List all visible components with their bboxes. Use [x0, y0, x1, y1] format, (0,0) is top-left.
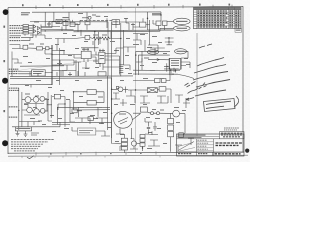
wire cluster to bus: [41, 26, 74, 30]
handwritten arrow into drawing: [186, 98, 194, 101]
revision table row lines: [194, 10, 242, 26]
handwritten word small upper: [199, 44, 212, 48]
signal arrow left-pointing: [154, 58, 160, 60]
pin stubs U3 U4: [52, 48, 120, 77]
wire chain right: [180, 114, 186, 120]
note text top-left: [21, 12, 30, 15]
revision table outline: [194, 7, 242, 28]
wire arc right: [178, 75, 194, 79]
notes line 6: [14, 150, 35, 152]
vertical wire x149.6: [149, 20, 151, 45]
handwritten checkmark bottom-left: [27, 156, 34, 159]
wire drop x161: [160, 12, 162, 21]
wire right bottom region: [171, 120, 185, 152]
wire drop from top bus at x147: [147, 12, 149, 30]
resistor R1: [23, 25, 29, 27]
wire input rows: [21, 26, 33, 33]
handwritten S-curve: [188, 88, 199, 94]
wire to oval E1: [167, 21, 174, 23]
note box P/O: [77, 128, 95, 135]
punch hole top-left: [3, 9, 9, 15]
tiny text bottom-left cluster: [31, 133, 39, 136]
notes line 4: [11, 145, 41, 147]
node labels row y37: [10, 38, 21, 41]
vertical wire x18.8: [18, 88, 20, 130]
long vertical bus x111.6 upper: [111, 22, 113, 78]
fold crease vertical mid: [134, 8, 136, 152]
vertical wire x123.3: [122, 31, 124, 66]
wire R5 to right: [120, 21, 140, 23]
handwritten scrawl line 2: [194, 65, 226, 74]
transistor Q5: [34, 109, 40, 115]
resistor R8 zigzag: [102, 37, 110, 40]
box on bus: [98, 72, 106, 76]
approvals cell rows: [213, 139, 215, 156]
bottom zone ticks: [36, 151, 156, 155]
extra wiring bottom mesh: [19, 89, 194, 151]
vertical wire x120.8: [120, 23, 122, 76]
wire U3 left: [52, 55, 81, 59]
power bus vertical x52: [51, 45, 53, 85]
IC U1: [56, 19, 62, 23]
feedback wires: [74, 92, 111, 110]
series chain y113: [132, 113, 140, 120]
sheet top border: [8, 6, 243, 7]
SECTION:FRAME: [2, 4, 249, 159]
wire U3 to U4: [91, 52, 99, 56]
thermistor ladder RT2: [121, 138, 127, 141]
wire chain: [147, 112, 172, 113]
transistor Q4: [27, 107, 33, 113]
capacitor C5 box: [85, 22, 90, 25]
wires lower middle mesh: [52, 107, 112, 124]
small boxes below routing: [155, 79, 161, 83]
capacitor C1 box: [156, 21, 161, 26]
title block bottom row: [177, 151, 245, 153]
wire bus y30: [41, 29, 174, 32]
routing loop verticals: [136, 51, 142, 75]
long bus y78.2: [10, 77, 112, 80]
resistor R7 zigzag: [93, 37, 101, 40]
revision table text smears: [197, 11, 240, 27]
ref designator smears scattered: [23, 13, 190, 149]
signature cell with diagonal strokes: [177, 151, 197, 153]
connector label block left mid: [9, 69, 18, 73]
label box bottom-left: [15, 127, 31, 131]
title block tolerance strip: [177, 138, 220, 140]
node J1 input labels: [10, 26, 22, 33]
wire x197 vertical: [196, 33, 198, 136]
IC U5: [169, 58, 181, 69]
component cluster with circle x120: [112, 87, 128, 93]
wire y126.8: [12, 122, 60, 127]
handwritten scrawl line 3: [193, 72, 228, 81]
wire top rectangle run: [49, 22, 108, 27]
wire crystal row: [136, 89, 172, 90]
wire bottom connects: [112, 138, 140, 144]
resistor R5: [112, 20, 120, 25]
revision table header band: [194, 7, 242, 9]
extra wiring centre mesh: [30, 34, 190, 77]
SECTION:NOTES: [11, 140, 54, 151]
fold crease diagonal left: [10, 58, 112, 72]
wire y84.5: [10, 84, 52, 87]
off-page oval E4: [147, 50, 158, 54]
handwritten note box text line 1: [206, 101, 231, 104]
capacitor C4: [153, 123, 156, 131]
extra left area wires: [10, 34, 65, 85]
pot circle chain: [173, 110, 180, 117]
revision table tail cell: [235, 29, 242, 33]
wire box x54: [52, 96, 65, 98]
transistor Q2: [33, 97, 39, 103]
handwritten scrawl line 4: [196, 80, 230, 88]
wire U4 right: [105, 56, 120, 60]
title block outline: [177, 134, 245, 156]
wire row y48: [12, 47, 52, 50]
handwritten note box text line 2: [206, 106, 224, 108]
wire rows y37: [21, 35, 33, 41]
transistor Q3: [40, 96, 45, 101]
reference note tiny text above title block: [224, 128, 239, 130]
notes line 3: [11, 143, 43, 145]
thermistor ladder RT1: [168, 113, 174, 140]
resistor R11: [72, 109, 77, 113]
box chain left: [141, 107, 148, 112]
extra wiring top-left mesh: [30, 12, 174, 45]
ground symbol G1: [16, 131, 20, 136]
zone letters left margin: [3, 26, 5, 113]
junction cluster right mid: [164, 63, 179, 75]
resistor R9: [87, 90, 96, 95]
wire U1 to Q6: [75, 18, 88, 25]
notes line 5: [11, 148, 38, 150]
resistor R4: [23, 32, 29, 34]
capacitor C2 box: [163, 21, 168, 26]
zone numbers top: [22, 4, 230, 7]
punch hole mid-left: [2, 78, 8, 84]
label smear x96: [96, 15, 101, 18]
transistor Q6 circle: [88, 16, 91, 19]
handwritten flourish curve: [234, 96, 239, 107]
wire dashed y20.3: [80, 19, 112, 21]
wire U1 left: [52, 12, 73, 22]
SECTION:TABLE: [194, 7, 242, 32]
handwritten ticks upper-left of note: [185, 82, 196, 88]
SECTION:TITLEBLOCK: [177, 128, 245, 156]
sheet bottom inner border: [8, 152, 244, 153]
connector labels lower-left: [9, 88, 19, 117]
meter M1 big ellipse: [114, 111, 133, 128]
ladder2 small rects: [140, 135, 145, 152]
box x54: [54, 94, 60, 99]
resistor R2: [23, 27, 29, 29]
pot circle P1: [131, 141, 136, 146]
junction circle chain 1: [151, 112, 154, 115]
wire top bus: [32, 11, 161, 13]
sheet left border: [7, 8, 9, 154]
wire Q6 vertical: [86, 12, 88, 30]
resistor R6: [85, 36, 90, 40]
handwritten scrawl line 1: [197, 58, 224, 67]
op-amp U4: [99, 52, 105, 63]
notes heading line 1: [11, 139, 54, 141]
capacitor C3: [147, 124, 150, 132]
wire drop from top bus at x45: [44, 12, 46, 26]
label +5V with underline: [152, 13, 161, 14]
ground symbol G2: [24, 131, 28, 136]
resistor R12: [88, 117, 93, 121]
crystal Y1 crossed box: [147, 88, 157, 93]
SECTION:HANDWRITING: [185, 44, 239, 112]
junction dots on bus: [51, 48, 52, 49]
junction cluster x168: [165, 37, 174, 45]
SECTION:END: [9, 12, 197, 153]
off-page oval E1: [174, 18, 191, 24]
long bus y76.3: [10, 75, 133, 78]
IC U2 box with text: [32, 70, 46, 76]
wire U2: [19, 72, 53, 74]
bus vertical x111.6: [111, 78, 113, 138]
junction dots scattered: [18, 14, 162, 148]
off-page oval E3: [175, 49, 187, 54]
wire bus y31.8: [74, 30, 161, 33]
notes line 2: [11, 141, 48, 143]
vertical wire x21.9: [21, 92, 23, 127]
resistor R3: [23, 30, 29, 32]
sheet right border: [242, 6, 244, 152]
handwritten small marks: [199, 83, 207, 90]
vertical wire x98.5: [98, 32, 100, 46]
code ident cell top right: [220, 132, 245, 139]
wire row y38.5: [74, 38, 121, 39]
transistor Q1: [25, 97, 31, 103]
crystal Y2 crossed box: [159, 87, 166, 91]
small box row mid y47: [23, 45, 28, 49]
zone tick marks top: [36, 5, 232, 9]
long vertical bus x108: [106, 22, 109, 130]
revision table column lines: [197, 7, 239, 28]
staple mark right edge: [245, 149, 249, 153]
diode network CR1-CR4: [33, 25, 41, 35]
box small x139: [140, 22, 146, 27]
junction circle chain 2: [157, 112, 160, 115]
wire to oval E2: [160, 28, 174, 31]
op-amp U3: [81, 51, 91, 58]
resistor R10: [87, 100, 96, 105]
wires transistor cluster: [22, 99, 52, 115]
resistor box x178: [179, 133, 184, 138]
handwritten note box: [204, 99, 236, 112]
wire vertical x131.5 bottom: [131, 128, 133, 139]
pin tap bus x119.5: [120, 56, 124, 75]
wire arrow run: [148, 59, 169, 61]
vertical wire x94.8: [94, 32, 96, 52]
routing loop horizontals: [133, 51, 180, 74]
drawing title text: [216, 143, 243, 145]
off-page oval E2: [174, 26, 191, 31]
sheet bottom outer border: [8, 155, 248, 156]
punch hole bottom-left: [2, 140, 8, 146]
